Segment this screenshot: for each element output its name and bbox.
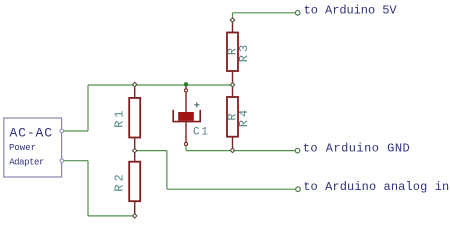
- junction node R1 top: [133, 82, 137, 86]
- svg-text:C1: C1: [193, 127, 210, 139]
- junction node R2 bottom: [133, 214, 137, 218]
- pin circle adapter top: [60, 129, 64, 133]
- junction node R4 bottom: [230, 148, 234, 152]
- wire: [185, 146, 187, 151]
- wire: [233, 12, 296, 14]
- terminal circle 5V: [295, 11, 300, 16]
- junction node R3/R4: [230, 83, 234, 87]
- svg-text:R4: R4: [237, 107, 251, 127]
- svg-text:Adapter: Adapter: [9, 157, 44, 167]
- wire: [64, 130, 89, 132]
- svg-text:to Arduino analog in: to Arduino analog in: [303, 180, 449, 194]
- wire: [88, 84, 233, 86]
- svg-text:to Arduino 5V: to Arduino 5V: [304, 4, 398, 18]
- resistor R4: [225, 85, 251, 151]
- AC-AC power adapter box: [4, 118, 62, 177]
- resistor R2: [113, 151, 141, 216]
- wire: [166, 151, 168, 190]
- wire: [186, 150, 295, 152]
- svg-text:R1: R1: [113, 107, 127, 127]
- svg-text:R3: R3: [237, 42, 251, 62]
- wire: [64, 160, 89, 162]
- junction dot C1 top (filled square): [184, 82, 188, 86]
- wire: [88, 215, 135, 217]
- svg-text:AC-AC: AC-AC: [10, 126, 53, 141]
- pin circle adapter bottom: [60, 159, 64, 163]
- junction node R1/R2: [133, 148, 137, 152]
- wire: [167, 188, 295, 190]
- svg-text:to Arduino GND: to Arduino GND: [303, 142, 410, 156]
- wire: [232, 13, 234, 20]
- wire: [135, 150, 167, 152]
- capacitor C1: [173, 85, 210, 146]
- terminal circle analog: [296, 187, 301, 192]
- svg-text:Power: Power: [9, 143, 36, 153]
- wire: [87, 161, 89, 216]
- wire: [87, 85, 89, 131]
- svg-text:R2: R2: [113, 171, 127, 191]
- resistor R1: [113, 85, 141, 151]
- terminal circle GND: [295, 148, 300, 153]
- resistor R3: [225, 20, 251, 85]
- junction node R3 top: [230, 18, 234, 22]
